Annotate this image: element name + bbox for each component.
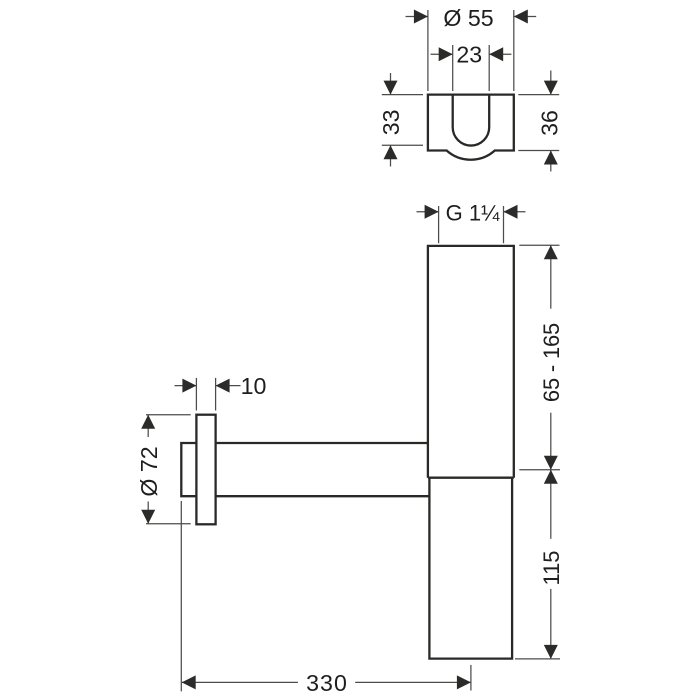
extension line 23 right [488,45,490,91]
extension line 10 left [195,378,197,411]
svg-text:Ø 55: Ø 55 [443,5,493,31]
drain U cutout [453,95,490,146]
extension line Ø72 bottom [146,523,191,525]
extension line G1 1/4 right [503,206,505,243]
dimension arrow 115 top [544,470,558,539]
dimension arrow G1 1/4 left [417,205,439,219]
dimension arrow 33 top [384,73,398,95]
extension line Ø72 top [146,414,191,416]
svg-text:115: 115 [539,550,564,585]
extension line 65-165 / 115 joint [519,469,560,471]
dimension arrow G1 1/4 right [504,205,526,219]
dimension arrow 65-165 top [544,245,558,308]
extension line 23 left [452,45,454,91]
wall escutcheon flange [196,415,215,525]
trap lower cup body [428,478,514,659]
horizontal pipe bottom edge [216,495,430,497]
svg-text:33: 33 [378,110,404,136]
dimension arrow 23 right [489,47,511,61]
extension line 10 right [215,378,217,411]
dimension arrow Ø55 right [514,10,536,24]
extension line Ø55 right [513,10,515,91]
dimension arrow Ø55 left [406,10,428,24]
wall outlet flange body (top detail) [428,95,514,160]
dimension arrow 330 right [355,675,471,689]
dimension arrow 10 left [175,379,197,393]
svg-text:65 - 165: 65 - 165 [539,323,564,402]
extension line G1 1/4 left [438,206,440,243]
extension line 115 bottom [515,658,560,660]
dimension arrow 330 left [182,675,298,689]
dimension arrow 10 right [216,379,241,393]
dimension arrow Ø72 top [141,415,155,437]
svg-text:23: 23 [456,42,482,68]
svg-text:Ø 72: Ø 72 [136,446,162,496]
svg-text:10: 10 [241,373,267,399]
dimension arrow 33 bottom [384,145,398,166]
horizontal pipe top edge [216,442,428,444]
dimension arrow 36 top [544,71,558,95]
dimension arrow 23 left [431,47,453,61]
dimension arrow 36 bottom [544,151,558,172]
extension line 330 right (trap centerline) [470,665,472,691]
dimension arrow Ø72 bottom [141,502,155,524]
svg-text:G 1¼: G 1¼ [446,200,500,225]
dimension arrow 65-165 bottom [544,413,558,470]
extension line 65-165 top [519,244,559,246]
extension line 330 left [180,501,182,691]
extension line 33 top [382,94,423,96]
extension line 36 top [518,94,559,96]
extension line Ø55 left [427,10,429,91]
svg-text:36: 36 [536,110,562,136]
trap inlet tube body [428,246,514,478]
svg-text:330: 330 [306,670,348,696]
dimension arrow 115 bottom [544,589,558,659]
wall pipe stub [181,443,196,496]
extension line 33 bottom [382,144,423,146]
extension line 36 bottom [518,150,559,152]
